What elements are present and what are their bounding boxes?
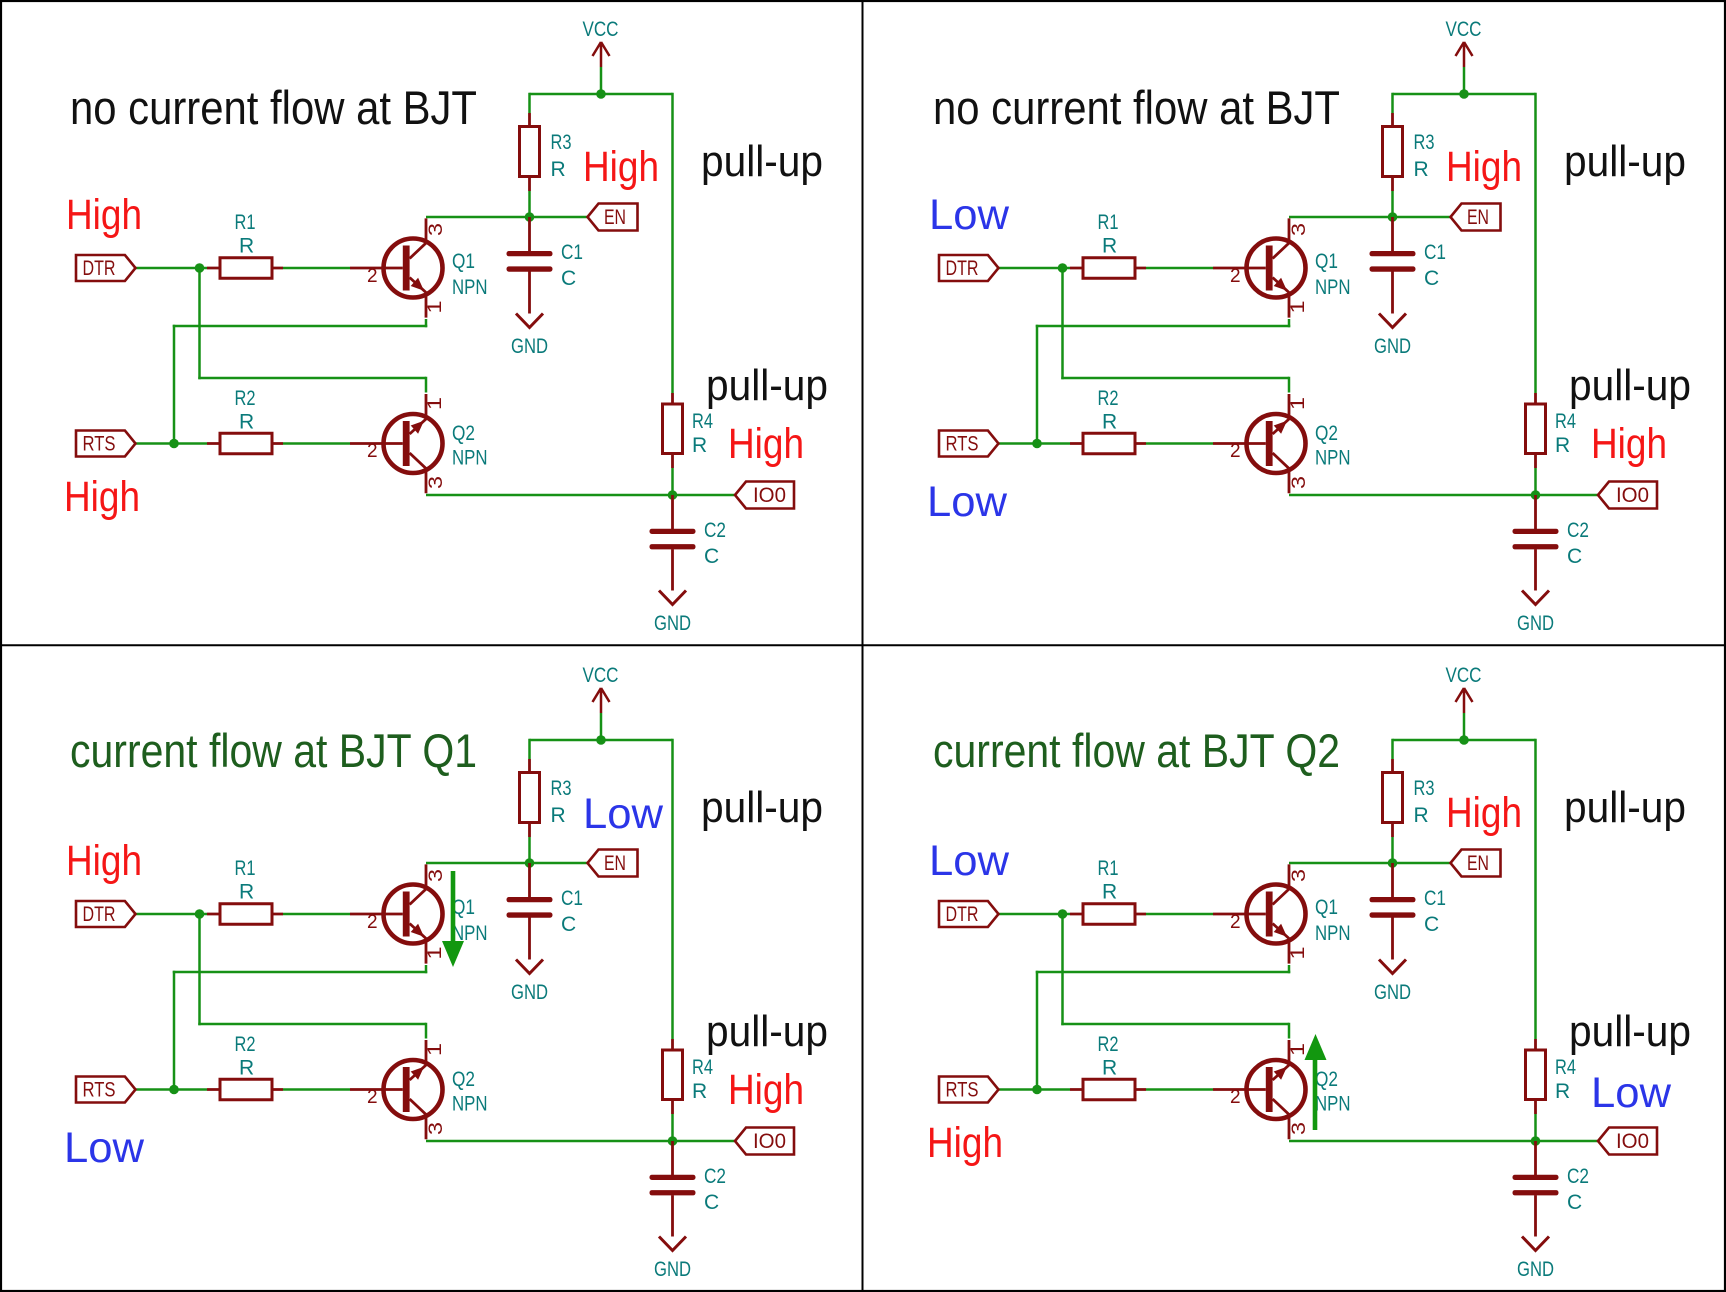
svg-text:C: C [1567, 1191, 1582, 1214]
output flag EN [1451, 850, 1501, 877]
svg-text:R3: R3 [1414, 131, 1435, 154]
wire R1 to Q1 base [1146, 267, 1213, 270]
resistor R1 [1070, 258, 1146, 279]
wire Q1 emitter to left [1036, 325, 1291, 328]
Q2 pin 3 (collector) number [1289, 476, 1310, 489]
C2 bottom lead [1534, 549, 1537, 590]
svg-text:Q1: Q1 [1315, 250, 1338, 273]
resistor R1 [207, 258, 283, 279]
wire R3 to EN node [1391, 837, 1394, 863]
svg-text:EN: EN [604, 206, 626, 229]
wire across to Q2 emitter [198, 1023, 426, 1026]
resistor R2 [207, 433, 283, 454]
svg-text:R: R [692, 434, 707, 457]
svg-text:2: 2 [367, 441, 378, 462]
wire R2 to Q2 base [283, 1088, 350, 1091]
capacitor C2 [1513, 1175, 1559, 1196]
ground symbol under C2 [659, 1237, 686, 1251]
svg-text:3: 3 [426, 476, 447, 489]
capacitor C1 [1370, 897, 1416, 918]
ground symbol under C2 [1522, 1237, 1549, 1251]
wire EN row (Q1 collector to EN flag) [426, 862, 587, 865]
wire DTR flag to R1 [136, 913, 208, 916]
Q1 pin 1 (emitter) number [425, 947, 446, 960]
resistor R3 [1383, 113, 1403, 191]
wire Q1 emitter to left [1036, 971, 1291, 974]
C1 top lead [1391, 863, 1394, 898]
svg-text:NPN: NPN [1315, 447, 1351, 470]
svg-text:no current flow at BJT: no current flow at BJT [933, 81, 1340, 134]
wire DTR node down [1061, 914, 1064, 1025]
junction at DTR node [1058, 263, 1068, 273]
svg-text:R: R [1414, 158, 1429, 181]
svg-text:pull-up: pull-up [1569, 1007, 1691, 1056]
svg-text:GND: GND [654, 612, 691, 635]
wire across to Q2 emitter [1061, 1023, 1289, 1026]
Q2 pin 1 (emitter) number [1288, 1043, 1309, 1056]
svg-text:Q1: Q1 [452, 250, 475, 273]
svg-text:1: 1 [425, 1043, 446, 1056]
svg-text:2: 2 [1230, 912, 1241, 933]
wire VCC to R4 (right column) [1534, 93, 1537, 393]
ground symbol under C1 [1379, 960, 1406, 974]
svg-text:pull-up: pull-up [706, 1007, 828, 1056]
Q1 pin 3 (collector) number [1289, 223, 1310, 236]
wire R3 to EN node [528, 191, 531, 217]
wire across to Q2 emitter [198, 377, 426, 380]
svg-text:IO0: IO0 [753, 1130, 786, 1153]
quadrant bottom-right: current flow at BJT Q2 [927, 664, 1691, 1281]
quadrant top-left: no current flow at BJT [64, 18, 828, 635]
wire R2 to Q2 base [283, 442, 350, 445]
svg-text:High: High [728, 420, 804, 468]
Q2 pin 3 (collector) number [1289, 1122, 1310, 1135]
svg-text:Q2: Q2 [1315, 422, 1338, 445]
svg-text:C2: C2 [704, 519, 726, 542]
Q1 pin 3 (collector) number [426, 223, 447, 236]
output flag IO0 [1598, 1128, 1657, 1155]
output flag IO0 [1598, 482, 1657, 509]
svg-text:C2: C2 [704, 1165, 726, 1188]
current flow arrow at Q1 (downward) [442, 871, 464, 967]
svg-text:R1: R1 [235, 211, 256, 234]
wire R4 to IO0 node [671, 468, 674, 495]
power symbol VCC [593, 688, 610, 713]
wire IO0 row (Q2 collector to IO0 flag) [1289, 494, 1598, 497]
junction at VCC node [1459, 89, 1469, 99]
svg-text:1: 1 [425, 301, 446, 314]
wire Q1 emitter to left [173, 971, 428, 974]
svg-text:C2: C2 [1567, 1165, 1589, 1188]
input flag RTS [76, 1077, 136, 1103]
svg-text:Q1: Q1 [1315, 896, 1338, 919]
capacitor C2 [1513, 529, 1559, 550]
wire R3 to EN node [528, 837, 531, 863]
svg-text:High: High [64, 473, 140, 521]
junction at RTS node [169, 1085, 179, 1095]
svg-text:R4: R4 [692, 1056, 713, 1079]
C1 top lead [528, 863, 531, 898]
svg-text:EN: EN [1467, 852, 1489, 875]
resistor R4 [1526, 393, 1546, 468]
C1 top lead [528, 217, 531, 252]
resistor R4 [1526, 1039, 1546, 1114]
input flag RTS [76, 431, 136, 457]
C2 bottom lead [671, 549, 674, 590]
output flag EN [588, 850, 638, 877]
wire Q2 emitter up [425, 377, 428, 393]
transistor Q1 [1213, 864, 1306, 963]
capacitor C1 [507, 251, 553, 272]
svg-text:GND: GND [511, 981, 548, 1004]
wire VCC to R4 (right column) [671, 93, 674, 393]
svg-text:R: R [1102, 881, 1117, 904]
wire VCC to R3 [528, 93, 531, 113]
wire VCC to R3 [1391, 739, 1394, 759]
output flag EN [588, 204, 638, 231]
svg-text:no current flow at BJT: no current flow at BJT [70, 81, 477, 134]
transistor Q1 [350, 864, 443, 963]
svg-text:1: 1 [1288, 301, 1309, 314]
svg-text:R2: R2 [1098, 387, 1119, 410]
junction at VCC node [1459, 735, 1469, 745]
svg-text:R4: R4 [1555, 410, 1576, 433]
wire RTS flag to R2 [999, 442, 1071, 445]
svg-text:1: 1 [1288, 1043, 1309, 1056]
wire R1 to Q1 base [283, 913, 350, 916]
svg-text:C2: C2 [1567, 519, 1589, 542]
wire Q1 emitter down [1288, 965, 1291, 973]
svg-text:GND: GND [511, 335, 548, 358]
ground symbol under C1 [1379, 314, 1406, 328]
ground symbol under C2 [1522, 591, 1549, 605]
svg-text:current flow at BJT Q1: current flow at BJT Q1 [70, 724, 477, 777]
svg-text:2: 2 [1230, 1087, 1241, 1108]
resistor R4 [663, 1039, 683, 1114]
wire Q1 emitter down [425, 319, 428, 327]
wire VCC stem [600, 713, 603, 741]
svg-text:R1: R1 [1098, 857, 1119, 880]
wire VCC horizontal bus [1393, 739, 1536, 742]
wire R1 to Q1 base [283, 267, 350, 270]
svg-text:NPN: NPN [452, 447, 488, 470]
svg-text:IO0: IO0 [1616, 484, 1649, 507]
svg-text:3: 3 [426, 223, 447, 236]
svg-text:RTS: RTS [946, 1079, 979, 1102]
svg-text:Low: Low [1591, 1069, 1672, 1117]
svg-text:DTR: DTR [83, 903, 116, 926]
svg-text:R2: R2 [1098, 1033, 1119, 1056]
svg-text:1: 1 [1288, 397, 1309, 410]
resistor R3 [1383, 759, 1403, 837]
wire VCC stem [600, 67, 603, 95]
svg-text:DTR: DTR [83, 257, 116, 280]
junction at EN node [525, 212, 535, 222]
svg-text:R: R [239, 881, 254, 904]
svg-text:EN: EN [604, 852, 626, 875]
resistor R3 [520, 759, 540, 837]
wire RTS flag to R2 [136, 442, 208, 445]
wire DTR node down [198, 268, 201, 379]
Q2 pin 1 (emitter) number [1288, 397, 1309, 410]
wire IO0 row (Q2 collector to IO0 flag) [426, 1140, 735, 1143]
wire Q1 emitter to left [173, 325, 428, 328]
svg-text:High: High [728, 1066, 804, 1114]
svg-text:pull-up: pull-up [1564, 783, 1686, 832]
wire IO0 row (Q2 collector to IO0 flag) [1289, 1140, 1598, 1143]
power symbol VCC [593, 42, 610, 67]
wire DTR flag to R1 [999, 267, 1071, 270]
svg-text:C1: C1 [1424, 241, 1446, 264]
svg-text:2: 2 [367, 266, 378, 287]
svg-text:Q1: Q1 [452, 896, 475, 919]
resistor R1 [207, 904, 283, 925]
junction at DTR node [195, 263, 205, 273]
wire VCC to R3 [528, 739, 531, 759]
Q2 pin 1 (emitter) number [425, 1043, 446, 1056]
svg-text:1: 1 [425, 397, 446, 410]
wire R3 to EN node [1391, 191, 1394, 217]
svg-text:R: R [1555, 434, 1570, 457]
junction at IO0 node [1531, 490, 1541, 500]
svg-text:VCC: VCC [583, 18, 619, 41]
junction at IO0 node [1531, 1136, 1541, 1146]
wire VCC to R4 (right column) [1534, 739, 1537, 1039]
wire VCC stem [1463, 67, 1466, 95]
svg-text:High: High [1446, 143, 1522, 191]
svg-text:2: 2 [1230, 441, 1241, 462]
svg-text:DTR: DTR [946, 257, 979, 280]
wire DTR flag to R1 [136, 267, 208, 270]
svg-text:current flow at BJT Q2: current flow at BJT Q2 [933, 724, 1340, 777]
svg-text:Low: Low [927, 478, 1008, 526]
resistor R3 [520, 113, 540, 191]
wire RTS flag to R2 [136, 1088, 208, 1091]
wire VCC to R4 (right column) [671, 739, 674, 1039]
wire VCC horizontal bus [530, 93, 673, 96]
svg-text:R: R [1102, 1057, 1117, 1080]
input flag DTR [939, 901, 999, 927]
wire down to RTS node [173, 971, 176, 1090]
wire IO0 row (Q2 collector to IO0 flag) [426, 494, 735, 497]
svg-text:High: High [66, 191, 142, 239]
transistor Q1 [350, 218, 443, 317]
svg-text:IO0: IO0 [753, 484, 786, 507]
Q2 pin 1 (emitter) number [425, 397, 446, 410]
svg-text:GND: GND [1374, 981, 1411, 1004]
svg-text:C: C [561, 267, 576, 290]
wire Q2 emitter up [1288, 1023, 1291, 1039]
ground symbol under C1 [516, 960, 543, 974]
svg-text:Low: Low [929, 837, 1010, 885]
power symbol VCC [1456, 42, 1473, 67]
resistor R1 [1070, 904, 1146, 925]
resistor R2 [1070, 1079, 1146, 1100]
wire EN row (Q1 collector to EN flag) [426, 216, 587, 219]
wire Q1 emitter down [425, 965, 428, 973]
junction at VCC node [596, 89, 606, 99]
svg-text:R: R [1414, 804, 1429, 827]
Q1 pin 3 (collector) number [1289, 869, 1310, 882]
svg-text:Q2: Q2 [452, 422, 475, 445]
svg-text:NPN: NPN [1315, 922, 1351, 945]
C1 top lead [1391, 217, 1394, 252]
transistor Q2 [1213, 394, 1306, 493]
svg-text:RTS: RTS [83, 1079, 116, 1102]
wire RTS flag to R2 [999, 1088, 1071, 1091]
Q2 pin 3 (collector) number [426, 476, 447, 489]
svg-text:DTR: DTR [946, 903, 979, 926]
svg-text:Q2: Q2 [452, 1068, 475, 1091]
Q1 pin 1 (emitter) number [1288, 301, 1309, 314]
svg-text:2: 2 [367, 1087, 378, 1108]
svg-text:Low: Low [64, 1124, 145, 1172]
Q1 pin 1 (emitter) number [425, 301, 446, 314]
input flag RTS [939, 1077, 999, 1103]
wire R2 to Q2 base [1146, 1088, 1213, 1091]
svg-text:R: R [1555, 1080, 1570, 1103]
wire Q2 emitter up [1288, 377, 1291, 393]
C2 bottom lead [671, 1195, 674, 1236]
svg-text:C: C [1424, 913, 1439, 936]
C2 bottom lead [1534, 1195, 1537, 1236]
transistor Q2 [350, 394, 443, 493]
svg-text:Low: Low [929, 191, 1010, 239]
svg-text:C1: C1 [1424, 887, 1446, 910]
svg-text:NPN: NPN [1315, 276, 1351, 299]
svg-text:NPN: NPN [452, 276, 488, 299]
svg-text:C1: C1 [561, 241, 583, 264]
C2 top lead [1534, 495, 1537, 529]
resistor R2 [1070, 433, 1146, 454]
svg-text:EN: EN [1467, 206, 1489, 229]
svg-text:R1: R1 [235, 857, 256, 880]
svg-text:RTS: RTS [946, 433, 979, 456]
wire Q2 emitter up [425, 1023, 428, 1039]
svg-text:R4: R4 [692, 410, 713, 433]
svg-text:C: C [1567, 545, 1582, 568]
svg-text:High: High [1591, 420, 1667, 468]
capacitor C1 [507, 897, 553, 918]
output flag IO0 [735, 1128, 794, 1155]
wire R4 to IO0 node [671, 1114, 674, 1141]
svg-text:NPN: NPN [452, 1093, 488, 1116]
svg-text:R: R [239, 411, 254, 434]
svg-text:2: 2 [1230, 266, 1241, 287]
svg-text:3: 3 [426, 869, 447, 882]
capacitor C2 [650, 529, 696, 550]
svg-text:R1: R1 [1098, 211, 1119, 234]
junction at IO0 node [668, 1136, 678, 1146]
wire VCC to R3 [1391, 93, 1394, 113]
svg-text:IO0: IO0 [1616, 1130, 1649, 1153]
ground symbol under C1 [516, 314, 543, 328]
power symbol VCC [1456, 688, 1473, 713]
svg-text:R: R [239, 1057, 254, 1080]
Q1 pin 3 (collector) number [426, 869, 447, 882]
svg-text:R: R [551, 158, 566, 181]
Q1 pin 1 (emitter) number [1288, 947, 1309, 960]
junction at EN node [525, 858, 535, 868]
wire down to RTS node [173, 325, 176, 444]
svg-text:R: R [551, 804, 566, 827]
junction at DTR node [195, 909, 205, 919]
C1 bottom lead [528, 918, 531, 960]
input flag RTS [939, 431, 999, 457]
input flag DTR [939, 255, 999, 281]
wire across to Q2 emitter [1061, 377, 1289, 380]
wire DTR node down [198, 914, 201, 1025]
quadrant top-right: no current flow at BJT [927, 18, 1691, 635]
capacitor C2 [650, 1175, 696, 1196]
svg-text:pull-up: pull-up [706, 361, 828, 410]
wire R1 to Q1 base [1146, 913, 1213, 916]
svg-text:R3: R3 [1414, 777, 1435, 800]
wire down to RTS node [1036, 971, 1039, 1090]
svg-text:GND: GND [654, 1258, 691, 1281]
svg-text:Low: Low [583, 790, 664, 838]
svg-text:C: C [561, 913, 576, 936]
input flag DTR [76, 255, 136, 281]
svg-text:pull-up: pull-up [701, 137, 823, 186]
svg-text:3: 3 [1289, 476, 1310, 489]
wire VCC horizontal bus [1393, 93, 1536, 96]
svg-text:R2: R2 [235, 1033, 256, 1056]
svg-text:R: R [1102, 235, 1117, 258]
wire Q1 emitter down [1288, 319, 1291, 327]
current flow arrow at Q2 (upward) [1305, 1034, 1327, 1130]
transistor Q2 [1213, 1040, 1306, 1139]
svg-text:R: R [692, 1080, 707, 1103]
svg-text:High: High [1446, 789, 1522, 837]
junction at DTR node [1058, 909, 1068, 919]
svg-text:GND: GND [1374, 335, 1411, 358]
svg-text:R3: R3 [551, 777, 572, 800]
svg-text:R3: R3 [551, 131, 572, 154]
svg-text:VCC: VCC [1446, 18, 1482, 41]
svg-text:RTS: RTS [83, 433, 116, 456]
svg-text:3: 3 [1289, 1122, 1310, 1135]
junction at EN node [1388, 212, 1398, 222]
resistor R4 [663, 393, 683, 468]
junction at RTS node [169, 439, 179, 449]
C2 top lead [671, 1141, 674, 1175]
wire DTR flag to R1 [999, 913, 1071, 916]
svg-text:C: C [704, 545, 719, 568]
svg-text:NPN: NPN [1315, 1093, 1351, 1116]
capacitor C1 [1370, 251, 1416, 272]
svg-text:R2: R2 [235, 387, 256, 410]
svg-text:High: High [927, 1119, 1003, 1167]
C2 top lead [1534, 1141, 1537, 1175]
junction at RTS node [1032, 439, 1042, 449]
transistor Q1 [1213, 218, 1306, 317]
wire VCC horizontal bus [530, 739, 673, 742]
wire VCC stem [1463, 713, 1466, 741]
quadrant bottom-left: current flow at BJT Q1 [64, 664, 828, 1281]
svg-text:R: R [239, 235, 254, 258]
svg-text:C1: C1 [561, 887, 583, 910]
transistor Q2 [350, 1040, 443, 1139]
junction at VCC node [596, 735, 606, 745]
junction at EN node [1388, 858, 1398, 868]
C1 bottom lead [1391, 272, 1394, 314]
svg-text:1: 1 [1288, 947, 1309, 960]
wire EN row (Q1 collector to EN flag) [1289, 862, 1450, 865]
Q2 pin 3 (collector) number [426, 1122, 447, 1135]
svg-text:C: C [1424, 267, 1439, 290]
junction at IO0 node [668, 490, 678, 500]
